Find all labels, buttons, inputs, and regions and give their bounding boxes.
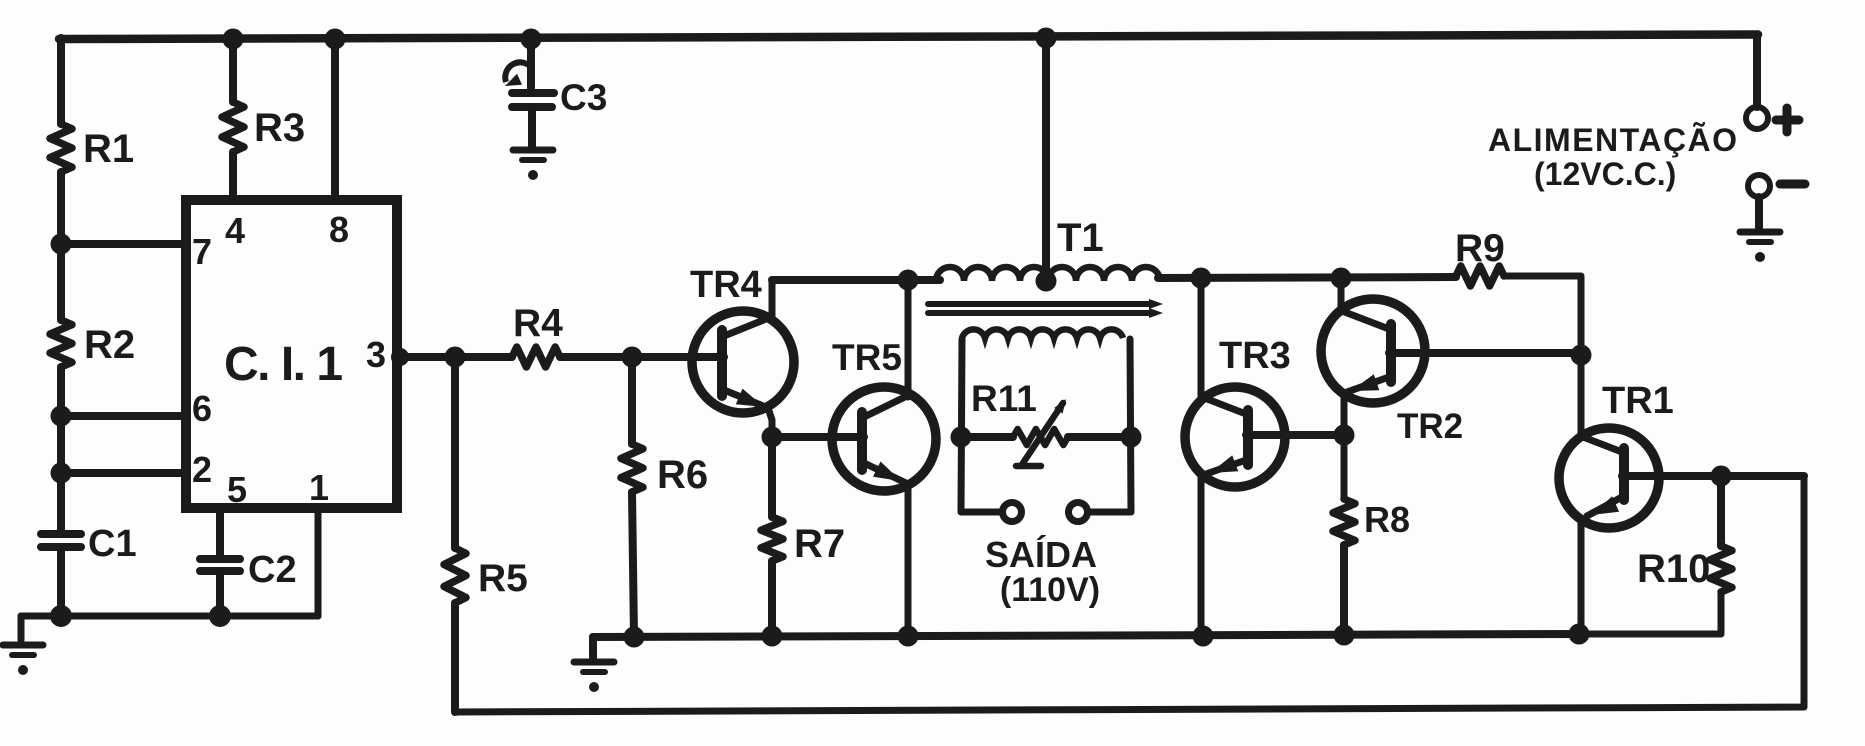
svg-text:R10: R10: [1637, 547, 1710, 591]
label R1: [83, 127, 134, 171]
resistor R7 top lead: [768, 437, 776, 517]
transistor TR5 base bar: [857, 412, 867, 470]
node C1 bottom junction: [50, 605, 72, 627]
node pin2 junction: [51, 463, 72, 484]
label 110V: [1000, 571, 1100, 609]
node TR3 collector top junction: [1191, 268, 1212, 289]
wire R2 to C1: [57, 367, 65, 531]
wire pin 2 lead: [61, 469, 186, 477]
node R6 tap junction: [622, 347, 643, 368]
minus sign: [1780, 180, 1805, 189]
wire TR2 base lead: [1389, 349, 1581, 357]
resistor R5 lead: [451, 357, 459, 548]
svg-text:ALIMENTAÇÃO: ALIMENTAÇÃO: [1488, 122, 1739, 158]
label TR3: [1219, 335, 1291, 377]
pin 8 number: [329, 209, 349, 250]
wire rail ground stub: [589, 637, 597, 658]
transistor TR3 emitter: [1201, 455, 1246, 636]
svg-text:R3: R3: [254, 106, 305, 150]
resistor R2: [50, 320, 72, 367]
node T1 centre-tap winding junction: [1036, 271, 1057, 292]
resistor R11: [1013, 429, 1068, 445]
wire TR4 collector to primary: [772, 276, 940, 284]
label SAIDA: [985, 534, 1097, 575]
node C3 rail junction: [521, 29, 542, 50]
wire R7 bottom lead: [768, 561, 776, 637]
pin 5 number: [227, 469, 247, 510]
svg-text:T1: T1: [1057, 216, 1104, 260]
svg-text:R4: R4: [513, 302, 563, 345]
resistor R11 left lead: [961, 433, 1013, 441]
node R7 rail junction: [762, 626, 783, 647]
svg-text:TR1: TR1: [1602, 380, 1674, 422]
node TR5 collector junction: [898, 270, 919, 291]
node TR1 emitter rail junction: [1569, 624, 1590, 645]
label 12VCC: [1534, 156, 1676, 192]
wire pin 4 lead: [229, 152, 237, 200]
node pin7 junction: [51, 234, 72, 255]
wire pin 3 output: [397, 353, 512, 361]
transistor TR1 body: [1559, 428, 1659, 528]
wire left column top: [57, 38, 65, 124]
wire emitter ground rail: [593, 634, 1581, 637]
svg-text:TR3: TR3: [1219, 335, 1291, 377]
svg-text:6: 6: [192, 388, 212, 429]
resistor R8: [1333, 499, 1355, 545]
node TR5 emitter rail junction: [898, 626, 919, 647]
svg-text:2: 2: [192, 449, 212, 490]
node R10 top junction: [1711, 466, 1732, 487]
svg-text:8: 8: [329, 209, 349, 250]
node pin3 edge junction: [391, 348, 409, 366]
node pin8 rail junction: [325, 29, 346, 50]
resistor R10: [1710, 546, 1732, 592]
transistor TR4 collector: [724, 280, 772, 336]
svg-text:7: 7: [192, 231, 212, 272]
svg-text:R6: R6: [657, 453, 708, 497]
resistor R11 right lead: [1068, 433, 1131, 441]
wire pin 6 lead: [61, 412, 186, 420]
transistor TR3 collector: [1201, 278, 1246, 414]
wire R1 to R2: [57, 172, 65, 320]
svg-text:3: 3: [366, 334, 386, 375]
svg-text:(110V): (110V): [1000, 571, 1100, 609]
svg-text:C3: C3: [560, 77, 607, 118]
wire C3 top lead: [527, 38, 535, 88]
transistor TR3 body: [1185, 387, 1285, 487]
wire R4 to TR4 base: [560, 353, 724, 361]
label C.I. 1: [224, 338, 342, 391]
label R5: [478, 557, 528, 600]
pin 1 number: [309, 467, 329, 508]
capacitor C3: [512, 93, 554, 107]
wire bottom feedback run: [455, 476, 1804, 712]
svg-text:R11: R11: [971, 378, 1037, 419]
pin 2 number: [192, 449, 212, 490]
transistor TR2 base bar: [1386, 324, 1396, 382]
terminal SAIDA left: [1003, 503, 1022, 522]
svg-text:TR4: TR4: [690, 264, 762, 306]
ground C3: [513, 150, 553, 180]
wire pin 5 lead: [216, 508, 224, 556]
label R6: [657, 453, 708, 497]
svg-text:SAÍDA: SAÍDA: [985, 534, 1097, 575]
resistor R11 wiper arrow: [1016, 399, 1066, 466]
wire R3 top lead: [229, 38, 237, 102]
node TR2 base junction: [1571, 345, 1592, 366]
label TR5: [832, 337, 902, 378]
wire pin 8 lead: [331, 38, 339, 200]
transistor TR1 collector: [1583, 437, 1622, 452]
label R3: [254, 106, 305, 150]
node R11 right junction: [1121, 427, 1142, 448]
label R8: [1364, 499, 1410, 540]
node TR2 collector top junction: [1331, 268, 1352, 289]
label R9: [1455, 227, 1505, 270]
label TR2: [1397, 407, 1463, 446]
svg-text:(12VC.C.): (12VC.C.): [1534, 156, 1676, 192]
wire TR4 emitter to TR5 base: [772, 433, 864, 441]
capacitor C2: [200, 559, 240, 571]
node TR4 emitter junction: [762, 427, 783, 448]
label R7: [794, 522, 845, 566]
transistor TR3 base bar: [1243, 410, 1253, 465]
wire R6 bottom lead: [632, 492, 634, 637]
pin 3 number: [366, 334, 386, 375]
svg-text:TR5: TR5: [832, 337, 902, 378]
label T1: [1057, 216, 1104, 260]
svg-text:C. I. 1: C. I. 1: [224, 338, 342, 391]
wire TR1 base lead: [1622, 472, 1804, 480]
transistor TR2 collector: [1341, 278, 1389, 329]
label C3: [560, 77, 607, 118]
ground left: [3, 645, 43, 675]
wire C1 to bottom node: [57, 550, 65, 616]
plus sign: [1776, 108, 1799, 132]
node TR3 emitter rail junction: [1193, 626, 1214, 647]
wire C3 bottom lead: [528, 110, 536, 147]
wire +12V top rail: [59, 35, 1758, 40]
node T1 centre-tap rail junction: [1036, 28, 1057, 49]
wire output box right edge: [1089, 339, 1131, 512]
label R4: [513, 302, 563, 345]
node TR3 base junction: [1334, 425, 1355, 446]
wire ground stub left: [18, 616, 25, 640]
wire C2 bottom lead: [216, 574, 224, 616]
svg-text:R1: R1: [83, 127, 134, 171]
resistor R6: [621, 444, 643, 492]
label R10: [1637, 547, 1710, 591]
transistor TR4 base bar: [717, 330, 727, 396]
resistor R7: [761, 517, 783, 561]
resistor R9: [1456, 266, 1504, 286]
node R5 tap junction: [445, 347, 466, 368]
resistor R10 top lead: [1717, 476, 1725, 546]
svg-text:R9: R9: [1455, 227, 1505, 270]
node R3 top rail junction: [223, 29, 244, 50]
wire R10 bottom lead: [1579, 592, 1721, 634]
label R11: [971, 378, 1037, 419]
node R6 rail junction: [624, 627, 645, 648]
pin 7 number: [192, 231, 212, 272]
transformer T1 primary winding: [936, 267, 1160, 281]
wire R5 to bottom loop: [451, 603, 459, 712]
label C1: [88, 523, 137, 565]
node R8 rail junction: [1334, 625, 1355, 646]
resistor R4: [512, 347, 560, 367]
ground supply: [1740, 232, 1780, 262]
wire output box left edge: [961, 339, 1001, 512]
node C2 bottom junction: [209, 605, 231, 627]
transistor TR1 emitter: [1581, 496, 1622, 634]
wire pin 7 lead: [61, 240, 186, 248]
pin 4 number: [225, 210, 245, 251]
label TR1: [1602, 380, 1674, 422]
transformer T1 secondary winding: [962, 329, 1123, 338]
transistor TR5 collector: [864, 280, 908, 417]
wire R9 to TR1 collector: [1504, 276, 1581, 437]
capacitor C3 polarity arrow: [505, 62, 532, 86]
svg-text:R8: R8: [1364, 499, 1410, 540]
wire supply positive lead: [1753, 36, 1761, 107]
wire primary to R9 run: [1158, 277, 1456, 278]
node pin6 junction: [51, 406, 72, 427]
transistor TR5 body: [832, 387, 936, 491]
transistor TR1 base bar: [1619, 448, 1629, 500]
transistor TR5 emitter: [864, 462, 908, 637]
wire TR3 base lead: [1246, 431, 1344, 439]
label R2: [84, 323, 135, 367]
wire supply negative lead: [1755, 197, 1763, 228]
resistor R3: [222, 102, 244, 152]
svg-text:TR2: TR2: [1397, 407, 1463, 446]
label ALIMENTACAO: [1488, 122, 1739, 158]
resistor R6 top lead: [628, 357, 636, 444]
resistor R5: [444, 548, 466, 603]
resistor R1: [50, 124, 72, 172]
svg-text:1: 1: [309, 467, 329, 508]
transistor TR2 emitter: [1344, 374, 1389, 499]
ground centre: [574, 662, 614, 692]
svg-text:5: 5: [227, 469, 247, 510]
pin 6 number: [192, 388, 212, 429]
svg-text:C2: C2: [248, 549, 297, 591]
terminal supply negative: [1748, 175, 1770, 197]
transformer T1 core: [928, 299, 1163, 318]
transistor TR4 body: [692, 311, 794, 413]
node R11 left junction: [951, 427, 972, 448]
wire T1 centre tap: [1042, 38, 1050, 281]
transistor TR4 emitter: [724, 389, 772, 437]
transistor TR2 body: [1321, 299, 1425, 403]
capacitor C1: [41, 534, 81, 547]
svg-text:R7: R7: [794, 522, 845, 566]
wire pin 1 lead: [315, 508, 322, 616]
svg-text:R2: R2: [84, 323, 135, 367]
svg-text:R5: R5: [478, 557, 528, 600]
terminal SAIDA right: [1069, 503, 1088, 522]
svg-text:C1: C1: [88, 523, 137, 565]
op-amp U1 C.I.1 box: [186, 200, 397, 508]
svg-text:4: 4: [225, 210, 245, 251]
wire bottom-left ground run: [21, 613, 318, 620]
label TR4: [690, 264, 762, 306]
wire R8 bottom lead: [1340, 545, 1348, 635]
label C2: [248, 549, 297, 591]
terminal supply positive: [1746, 107, 1768, 129]
